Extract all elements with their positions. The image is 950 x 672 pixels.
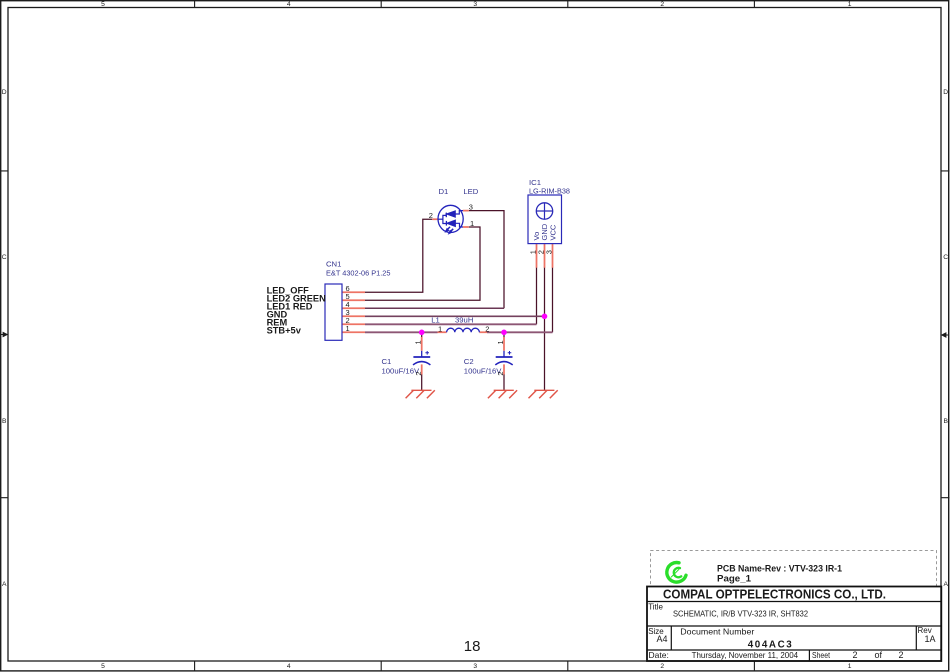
svg-text:1: 1 bbox=[438, 324, 442, 333]
svg-text:VCC: VCC bbox=[548, 224, 557, 240]
svg-text:C: C bbox=[2, 254, 7, 261]
svg-text:SCHEMATIC, IR/B VTV-323 IR, SH: SCHEMATIC, IR/B VTV-323 IR, SHT832 bbox=[673, 609, 808, 619]
svg-text:LG-RIM-B38: LG-RIM-B38 bbox=[529, 187, 570, 196]
svg-text:2: 2 bbox=[485, 324, 489, 333]
svg-text:2: 2 bbox=[899, 650, 904, 660]
svg-text:2: 2 bbox=[414, 371, 423, 375]
svg-text:A: A bbox=[943, 581, 948, 588]
svg-text:PCB Name-Rev : VTV-323 IR-1: PCB Name-Rev : VTV-323 IR-1 bbox=[717, 564, 842, 574]
svg-text:404AC3: 404AC3 bbox=[748, 640, 793, 651]
svg-text:1: 1 bbox=[346, 324, 350, 333]
svg-text:1: 1 bbox=[470, 219, 474, 228]
svg-text:C2: C2 bbox=[464, 357, 474, 366]
svg-text:COMPAL OPTPELECTRONICS CO., LT: COMPAL OPTPELECTRONICS CO., LTD. bbox=[663, 587, 886, 602]
svg-text:3: 3 bbox=[473, 663, 477, 670]
svg-text:4: 4 bbox=[287, 663, 291, 670]
svg-text:1: 1 bbox=[848, 1, 852, 8]
svg-text:A4: A4 bbox=[657, 634, 668, 644]
svg-text:D: D bbox=[2, 89, 7, 96]
svg-text:E&T 4302-06 P1.25: E&T 4302-06 P1.25 bbox=[326, 269, 391, 278]
svg-text:CN1: CN1 bbox=[326, 260, 341, 269]
svg-text:1: 1 bbox=[496, 340, 505, 344]
svg-text:D: D bbox=[943, 89, 948, 96]
svg-text:L1: L1 bbox=[431, 316, 440, 325]
svg-text:D1: D1 bbox=[439, 187, 449, 196]
svg-text:C: C bbox=[943, 254, 948, 261]
svg-text:STB+5v: STB+5v bbox=[267, 326, 302, 336]
svg-text:39uH: 39uH bbox=[455, 316, 473, 325]
svg-text:2: 2 bbox=[429, 211, 433, 220]
svg-text:B: B bbox=[2, 418, 7, 425]
svg-text:2: 2 bbox=[853, 650, 858, 660]
svg-text:Sheet: Sheet bbox=[812, 650, 831, 660]
svg-text:Page_1: Page_1 bbox=[717, 574, 751, 584]
svg-text:5: 5 bbox=[101, 663, 105, 670]
svg-text:18: 18 bbox=[464, 638, 481, 655]
svg-text:Document Number: Document Number bbox=[680, 627, 754, 637]
svg-text:of: of bbox=[875, 650, 883, 660]
svg-text:Thursday, November 11, 2004: Thursday, November 11, 2004 bbox=[692, 650, 799, 660]
svg-text:2: 2 bbox=[660, 663, 664, 670]
svg-text:2: 2 bbox=[660, 1, 664, 8]
svg-text:1: 1 bbox=[848, 663, 852, 670]
svg-text:3: 3 bbox=[473, 1, 477, 8]
svg-text:LED: LED bbox=[463, 187, 478, 196]
svg-text:Title: Title bbox=[648, 603, 663, 612]
svg-text:2: 2 bbox=[496, 371, 505, 375]
svg-text:1A: 1A bbox=[925, 634, 936, 644]
svg-text:3: 3 bbox=[544, 250, 553, 254]
svg-text:1: 1 bbox=[414, 340, 423, 344]
svg-text:4: 4 bbox=[287, 1, 291, 8]
svg-text:3: 3 bbox=[469, 203, 473, 212]
svg-text:Date:: Date: bbox=[649, 650, 669, 660]
svg-text:5: 5 bbox=[101, 1, 105, 8]
svg-text:C1: C1 bbox=[382, 357, 392, 366]
svg-text:A: A bbox=[2, 581, 7, 588]
svg-text:B: B bbox=[943, 418, 948, 425]
